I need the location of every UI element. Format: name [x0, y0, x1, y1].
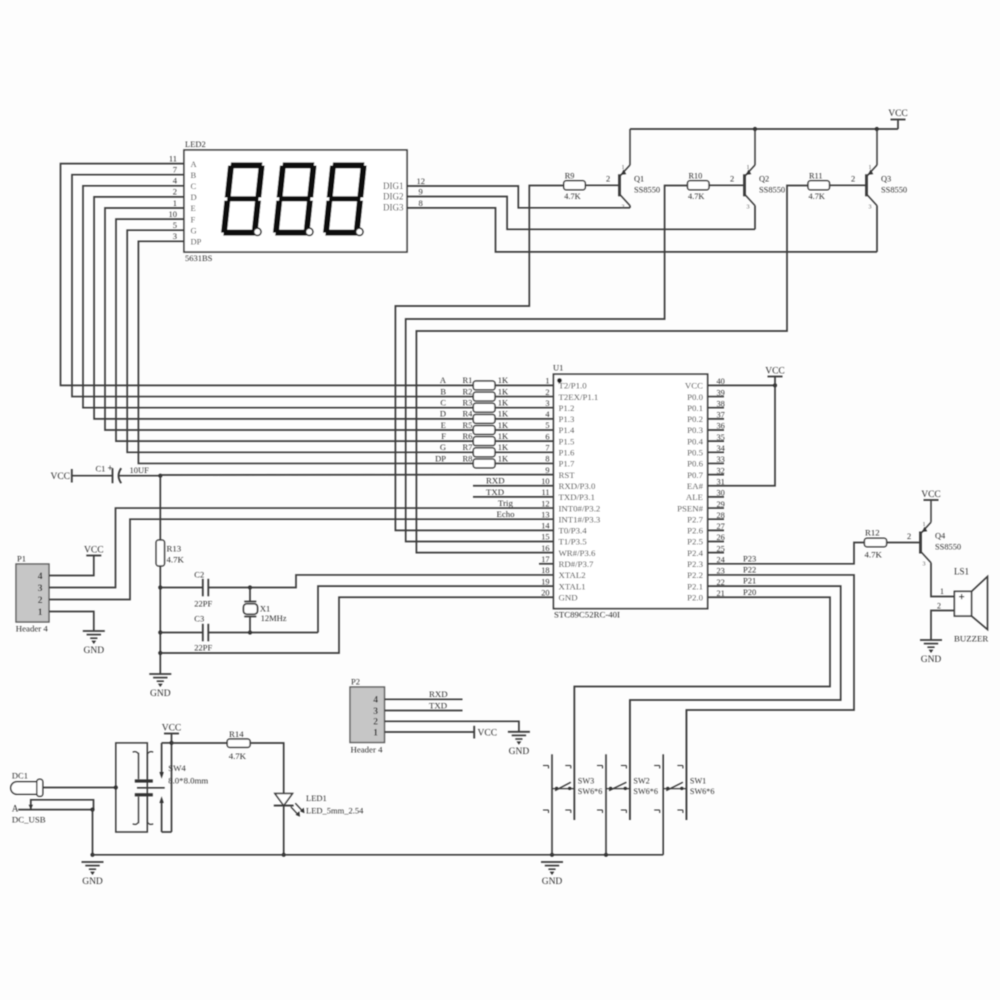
svg-text:22PF: 22PF [194, 599, 212, 609]
wire DIG2 to Q2 collector [407, 197, 755, 230]
wire pin 40 to VCC [724, 384, 775, 386]
wire P2.3 net P23 to R12 [724, 543, 864, 564]
wire P2 pin 4 net RXD [385, 689, 463, 699]
svg-text:R2: R2 [463, 386, 473, 396]
svg-text:T0/P3.4: T0/P3.4 [559, 526, 588, 536]
svg-text:A: A [12, 803, 19, 813]
svg-text:Header 4: Header 4 [351, 745, 384, 755]
power VCC at SW4 [162, 723, 182, 733]
svg-text:4.7K: 4.7K [167, 555, 185, 565]
svg-text:2: 2 [373, 718, 378, 728]
wire P1 pin 1 to ground [49, 612, 94, 632]
wire SW4 to R14 [172, 742, 228, 744]
svg-text:SS8550: SS8550 [759, 185, 785, 194]
wire R10 to Q2 base, pin 2 [709, 173, 745, 185]
svg-text:P0.5: P0.5 [687, 448, 703, 458]
svg-text:SS8550: SS8550 [881, 185, 907, 194]
svg-text:LED2: LED2 [185, 139, 206, 149]
svg-text:4: 4 [373, 696, 378, 706]
svg-text:U1: U1 [553, 363, 563, 373]
crystal X1 12MHz [244, 588, 287, 633]
ground switch GND [541, 862, 563, 887]
svg-text:P0.0: P0.0 [687, 392, 703, 402]
wire segment G: display pin to resistor row [127, 220, 553, 452]
wire VCC rail top [630, 128, 898, 130]
svg-text:SW3: SW3 [578, 776, 594, 785]
wire Q3 collector drop [876, 206, 878, 252]
svg-text:SS8550: SS8550 [935, 543, 961, 552]
node SW4 left junction [114, 785, 118, 789]
wire segment A: display pin to resistor row [61, 153, 554, 385]
wire net TXD at U1 pin 11 [473, 487, 554, 497]
svg-text:2: 2 [851, 173, 855, 183]
svg-text:Echo: Echo [497, 509, 516, 519]
switch SW4 8.0*8.0mm self-locking [116, 743, 209, 832]
svg-text:11: 11 [169, 153, 177, 163]
svg-text:P0.4: P0.4 [687, 436, 703, 446]
svg-text:R7: R7 [463, 442, 473, 452]
svg-text:GND: GND [509, 747, 530, 757]
svg-text:GND: GND [82, 877, 103, 887]
svg-text:C: C [440, 398, 446, 408]
svg-text:15: 15 [541, 533, 549, 542]
svg-text:4: 4 [38, 572, 43, 582]
resistor R6 1K [441, 431, 509, 446]
ground buzzer GND [920, 640, 942, 665]
power VCC at C1 [50, 469, 112, 483]
wire MCU pin 15 to R10 [406, 186, 688, 542]
svg-text:5631BS: 5631BS [185, 253, 213, 263]
transistor Q2 SS8550 [745, 129, 786, 210]
svg-text:P1.6: P1.6 [559, 448, 575, 458]
resistor R14 4.7K [227, 729, 250, 761]
wire VCC to SW4 [171, 734, 173, 743]
wire segment D: display pin to resistor row [94, 187, 553, 419]
svg-text:R11: R11 [809, 171, 823, 180]
svg-text:13: 13 [541, 510, 549, 519]
svg-text:GND: GND [84, 646, 105, 656]
svg-text:P0.6: P0.6 [687, 459, 703, 469]
svg-text:VCC: VCC [478, 729, 498, 739]
svg-text:20: 20 [541, 588, 549, 597]
svg-text:6: 6 [545, 432, 549, 441]
switch SW2 SW6*6 [597, 700, 658, 855]
svg-text:D: D [440, 409, 446, 419]
svg-text:9: 9 [545, 466, 549, 475]
U1 left pin names and numbers 1-20 [541, 377, 601, 603]
wire segment DP: display pin to resistor row [138, 231, 553, 463]
connector P2 Header 4 [350, 677, 385, 755]
svg-text:3: 3 [869, 204, 872, 210]
svg-text:P2.2: P2.2 [687, 570, 703, 580]
U1 right pin names and numbers 40-21 [677, 377, 726, 602]
svg-text:P2.0: P2.0 [687, 592, 703, 602]
svg-text:LED1: LED1 [306, 793, 327, 803]
svg-text:BUZZER: BUZZER [954, 634, 988, 644]
svg-text:VCC: VCC [921, 490, 941, 500]
resistor R9 4.7K [564, 171, 586, 201]
svg-text:STC89C52RC-40I: STC89C52RC-40I [554, 610, 620, 620]
node SW3 rail junction [550, 853, 554, 857]
svg-text:VCC: VCC [685, 381, 703, 391]
node ground rail left junction [90, 853, 94, 857]
svg-text:3: 3 [38, 584, 43, 594]
resistor R13 4.7K [156, 540, 184, 566]
svg-text:5: 5 [173, 220, 177, 230]
wire segment B: display pin to resistor row [72, 165, 554, 397]
wire P2.1 net P21 to SW2 [630, 576, 841, 820]
svg-text:ALE: ALE [686, 492, 703, 502]
svg-text:8.0*8.0mm: 8.0*8.0mm [168, 775, 208, 785]
svg-text:SW6*6: SW6*6 [578, 787, 603, 796]
ground crystal GND [149, 674, 171, 699]
display pin DIG3 label [383, 198, 423, 213]
svg-text:P23: P23 [743, 553, 756, 563]
capacitor C2 22PF [160, 570, 250, 609]
wire P1 pin 4 to VCC [49, 556, 94, 576]
svg-text:14: 14 [541, 522, 550, 531]
power VCC at U1 [765, 366, 785, 376]
svg-text:SW4: SW4 [168, 763, 186, 773]
svg-text:INT0#/P3.2: INT0#/P3.2 [559, 503, 601, 513]
svg-text:P0.1: P0.1 [687, 403, 703, 413]
wire P2.2 net P22 to SW1 [686, 564, 854, 820]
wire VCC bar to pin40 [774, 377, 776, 386]
svg-text:E: E [191, 203, 196, 213]
svg-text:C1: C1 [96, 464, 106, 474]
display digit 1 [221, 162, 265, 235]
svg-text:DIG3: DIG3 [383, 203, 404, 213]
svg-text:TXD: TXD [486, 487, 504, 497]
svg-text:WR#/P3.6: WR#/P3.6 [559, 548, 597, 558]
node RST junction [158, 474, 162, 478]
wire MCU pin 16 to R11 [416, 186, 808, 553]
svg-text:10: 10 [541, 477, 549, 486]
svg-text:RXD: RXD [429, 689, 448, 699]
wire VCC to EA# pin 31 [724, 385, 775, 485]
wire ground to U1 pin 20 [160, 597, 553, 653]
svg-text:1: 1 [545, 377, 549, 386]
svg-text:1: 1 [38, 608, 43, 618]
node Q2 emitter junction [753, 127, 757, 131]
wire Q4 collector to buzzer pin 1 [931, 563, 954, 597]
svg-text:1K: 1K [498, 442, 509, 452]
node crystal top junction [248, 585, 252, 589]
diode LED1 LED_5mm_2.54 [274, 793, 364, 817]
svg-text:SS8550: SS8550 [634, 185, 660, 194]
svg-text:D: D [191, 192, 197, 202]
svg-text:1K: 1K [498, 431, 509, 441]
svg-text:12MHz: 12MHz [261, 613, 287, 623]
svg-text:P2.7: P2.7 [687, 514, 703, 524]
resistor R5 1K [441, 420, 509, 435]
svg-text:1K: 1K [498, 420, 509, 430]
svg-text:Header 4: Header 4 [16, 624, 49, 634]
svg-text:DIG2: DIG2 [383, 191, 404, 201]
wire RST to U1 pin 9 [160, 474, 553, 476]
svg-text:GND: GND [559, 592, 578, 602]
svg-text:RST: RST [559, 470, 576, 480]
7-segment display LED2 body [184, 139, 407, 263]
svg-text:GND: GND [150, 689, 171, 699]
svg-text:GND: GND [542, 877, 563, 887]
svg-text:3: 3 [173, 231, 177, 241]
svg-text:B: B [440, 386, 446, 396]
power VCC at P1 [84, 545, 104, 555]
switch SW1 SW6*6 [654, 710, 714, 855]
ground P2 GND [508, 732, 530, 757]
resistor R2 1K [440, 386, 509, 401]
svg-text:C: C [191, 181, 197, 191]
svg-text:DP: DP [435, 453, 446, 463]
svg-text:1: 1 [923, 522, 926, 528]
wire Q1 collector drop [629, 206, 631, 208]
power VCC at Q4 [921, 490, 941, 500]
svg-text:A: A [440, 375, 447, 385]
ground bottom left GND [82, 862, 104, 887]
wire segment E: display pin to resistor row [105, 198, 554, 430]
wire net RXD at U1 pin 10 [473, 476, 554, 486]
svg-text:3: 3 [747, 204, 750, 210]
svg-text:P20: P20 [743, 587, 756, 597]
svg-text:R10: R10 [689, 171, 703, 180]
svg-text:G: G [440, 442, 446, 452]
display digit 3 [323, 162, 367, 235]
svg-text:R5: R5 [463, 420, 473, 430]
display digit 2 [273, 162, 317, 235]
svg-text:R6: R6 [463, 431, 473, 441]
node DC_USB junction [90, 808, 94, 812]
resistor R10 4.7K [688, 171, 710, 201]
svg-text:19: 19 [541, 577, 549, 586]
wire P2 pin 3 net TXD [385, 700, 463, 710]
node Q3 emitter junction [875, 127, 879, 131]
capacitor C1 10UF polarized [96, 463, 161, 483]
wire DIG1 to Q1 collector [407, 186, 630, 208]
svg-text:1: 1 [373, 728, 378, 738]
node gnd wire junction [158, 651, 162, 655]
wire segment F: display pin to resistor row [116, 209, 554, 441]
node C3 gnd junction [158, 630, 162, 634]
svg-text:Trig: Trig [498, 498, 513, 508]
svg-text:10: 10 [169, 209, 178, 219]
svg-text:T2/P1.0: T2/P1.0 [559, 381, 588, 391]
svg-text:B: B [191, 170, 197, 180]
svg-text:P2.6: P2.6 [687, 526, 703, 536]
svg-text:7: 7 [545, 444, 549, 453]
svg-text:RXD/P3.0: RXD/P3.0 [559, 481, 597, 491]
svg-text:LS1: LS1 [954, 567, 969, 577]
svg-text:RD#/P3.7: RD#/P3.7 [559, 559, 595, 569]
svg-text:Q4: Q4 [935, 532, 946, 541]
svg-text:C2: C2 [194, 570, 204, 580]
power VCC at P2 pin 1 [385, 726, 498, 739]
connector DC1 barrel jack [11, 771, 116, 797]
wire R14 to LED1 [250, 743, 284, 794]
svg-text:12: 12 [541, 499, 549, 508]
svg-text:9: 9 [419, 187, 423, 197]
svg-text:SW2: SW2 [633, 776, 649, 785]
svg-text:XTAL2: XTAL2 [559, 570, 586, 580]
svg-text:X1: X1 [260, 603, 270, 613]
svg-text:P2.5: P2.5 [687, 537, 703, 547]
svg-text:3: 3 [622, 204, 625, 210]
svg-text:1: 1 [747, 165, 750, 171]
svg-text:R3: R3 [463, 398, 473, 408]
display pin DIG2 label [383, 187, 423, 202]
wire P1 pin 3 Trig to U1 pin 12 [49, 498, 554, 588]
svg-text:4.7K: 4.7K [688, 192, 704, 201]
svg-text:TXD/P3.1: TXD/P3.1 [559, 492, 595, 502]
svg-text:7: 7 [173, 165, 177, 175]
svg-text:DC_USB: DC_USB [12, 814, 46, 824]
svg-text:R1: R1 [463, 375, 473, 385]
wire Q2 collector drop [754, 206, 756, 230]
wire C1 junction down to R13 [159, 476, 161, 540]
transistor Q3 SS8550 [867, 129, 908, 210]
svg-text:RXD: RXD [486, 476, 505, 486]
svg-text:LED_5mm_2.54: LED_5mm_2.54 [306, 806, 364, 816]
svg-text:SW6*6: SW6*6 [633, 787, 658, 796]
svg-text:G: G [191, 225, 197, 235]
transistor Q1 SS8550 [620, 129, 661, 210]
svg-text:R12: R12 [865, 528, 880, 538]
svg-text:R4: R4 [463, 409, 474, 419]
svg-text:SW1: SW1 [690, 776, 706, 785]
node VCC junction at pin 40 [773, 383, 777, 387]
svg-text:16: 16 [541, 544, 549, 553]
capacitor C3 22PF [160, 614, 318, 653]
svg-text:VCC: VCC [84, 545, 104, 555]
svg-text:1K: 1K [498, 398, 509, 408]
svg-text:VCC: VCC [765, 366, 785, 376]
wire C2 to XTAL2 pin 18 [250, 575, 554, 588]
wire MCU pin 14 to R9 [395, 186, 563, 531]
svg-text:+: + [108, 463, 113, 473]
wire R11 to Q3 base, pin 2 [830, 173, 867, 185]
svg-text:P1.4: P1.4 [559, 425, 575, 435]
svg-text:4.7K: 4.7K [865, 550, 883, 560]
svg-text:EA#: EA# [687, 481, 704, 491]
wire C3 to XTAL1 pin 19 [318, 586, 554, 632]
svg-text:P2.3: P2.3 [687, 559, 703, 569]
svg-text:F: F [191, 214, 196, 224]
transistor Q4 SS8550 [921, 500, 962, 568]
display pin DIG1 label [383, 176, 425, 191]
wire R12 to Q4 base, pin 2 [887, 531, 921, 543]
wire P1 pin 2 Echo to U1 pin 13 [49, 509, 554, 600]
IC U1 STC89C52RC-40I microcontroller body [553, 363, 708, 620]
svg-text:8: 8 [545, 455, 549, 464]
wire R13 to ground rail [159, 566, 161, 674]
svg-text:P1.7: P1.7 [559, 459, 575, 469]
svg-text:SW6*6: SW6*6 [690, 787, 715, 796]
svg-text:2: 2 [606, 173, 610, 183]
wire R9 to Q1 base, pin 2 [585, 173, 619, 185]
svg-text:2: 2 [38, 596, 43, 606]
svg-text:DIG1: DIG1 [383, 181, 404, 191]
svg-text:TXD: TXD [429, 700, 447, 710]
switch SW3 SW6*6 [543, 687, 602, 855]
node crystal bottom junction [248, 630, 252, 634]
svg-text:F: F [441, 431, 446, 441]
svg-text:R8: R8 [463, 453, 473, 463]
resistor R12 4.7K [864, 528, 886, 560]
svg-text:1K: 1K [498, 375, 509, 385]
svg-text:P1.3: P1.3 [559, 414, 575, 424]
svg-text:12: 12 [417, 176, 426, 186]
power VCC top right [888, 109, 908, 129]
svg-text:3: 3 [545, 399, 549, 408]
svg-text:P2.1: P2.1 [687, 581, 703, 591]
svg-text:4.7K: 4.7K [564, 192, 580, 201]
svg-text:P22: P22 [743, 564, 756, 574]
svg-text:P1.5: P1.5 [559, 436, 575, 446]
svg-text:PSEN#: PSEN# [677, 503, 704, 513]
svg-text:1K: 1K [498, 453, 509, 463]
svg-text:P2.4: P2.4 [687, 548, 703, 558]
svg-text:4.7K: 4.7K [229, 751, 247, 761]
svg-text:1K: 1K [498, 409, 509, 419]
svg-text:P21: P21 [743, 576, 756, 586]
resistor R7 1K [440, 442, 509, 457]
resistor R8 1K [435, 453, 509, 468]
svg-text:2: 2 [730, 173, 734, 183]
svg-text:P0.3: P0.3 [687, 425, 703, 435]
svg-text:4.7K: 4.7K [809, 192, 825, 201]
svg-text:2: 2 [173, 187, 177, 197]
wire bottom ground rail [93, 854, 664, 856]
svg-text:A: A [191, 159, 198, 169]
svg-text:VCC: VCC [50, 472, 70, 482]
svg-text:2: 2 [937, 601, 941, 610]
svg-text:P1: P1 [17, 554, 26, 564]
svg-text:2: 2 [545, 388, 549, 397]
svg-text:XTAL1: XTAL1 [559, 581, 586, 591]
svg-text:P2: P2 [351, 677, 360, 687]
ground P1 GND [83, 631, 105, 656]
svg-text:GND: GND [921, 655, 942, 665]
wire P2.0 net P20 to SW3 [574, 587, 830, 820]
svg-text:Q1: Q1 [634, 174, 644, 183]
svg-text:1: 1 [940, 587, 944, 596]
svg-text:1: 1 [869, 165, 872, 171]
wire DIG3 to Q3 collector [407, 208, 877, 252]
svg-text:DC1: DC1 [12, 771, 28, 781]
svg-text:3: 3 [923, 562, 926, 568]
svg-text:18: 18 [541, 566, 549, 575]
buzzer LS1 [954, 567, 988, 644]
svg-text:2: 2 [907, 531, 911, 541]
connector DC_USB [12, 800, 94, 825]
U1 pin 17 stub [539, 563, 554, 565]
wire buzzer pin 2 to ground [931, 601, 954, 640]
svg-text:8: 8 [419, 198, 423, 208]
node SW4 VCC junction [169, 741, 173, 745]
svg-text:1: 1 [173, 198, 177, 208]
wire segment C: display pin to resistor row [83, 176, 554, 408]
svg-text:10UF: 10UF [130, 465, 150, 475]
node SW2 rail junction [604, 853, 608, 857]
svg-text:DP: DP [191, 237, 202, 247]
svg-text:INT1#/P3.3: INT1#/P3.3 [559, 514, 601, 524]
node LED ground junction [282, 853, 286, 857]
svg-text:C3: C3 [194, 614, 204, 624]
svg-text:22PF: 22PF [194, 643, 212, 653]
wire DC_USB to ground rail [92, 810, 94, 855]
node C2 gnd junction [158, 585, 162, 589]
svg-text:P0.2: P0.2 [687, 414, 703, 424]
